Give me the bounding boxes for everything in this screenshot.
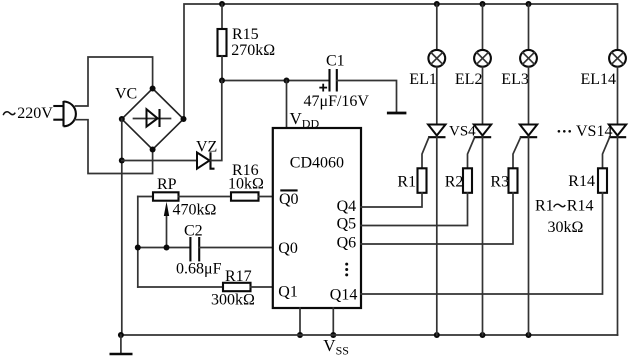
thyristor VS4 [422,125,446,169]
wire VSS pin right [332,308,334,335]
potentiometer RP [153,192,179,200]
wire C1 right lead down to terminal bar [337,81,397,113]
svg-text:C2: C2 [184,223,203,240]
resistor R15 [218,29,227,56]
node C2 row / wiper [164,245,170,251]
svg-text:Q0: Q0 [279,191,299,208]
node bridge right vertex [181,116,187,122]
svg-text:R3: R3 [490,173,509,190]
wire R17 to IC Q1 pin [251,286,273,288]
resistor R2 [463,168,472,193]
wire plug bottom prong to bridge bottom vertex [75,120,153,174]
wire EL2 to VS5 [482,67,484,125]
wire VZ cathode up to VDD node [211,81,222,161]
wire R15 top lead [221,4,223,29]
label Q0bar [279,190,299,208]
wire VSS pin left [299,308,301,335]
resistor R17 [223,283,251,291]
thyristor VS5 [468,125,492,169]
lamp EL1 [428,50,445,67]
label + polarity [319,84,327,92]
resistor R16 [231,192,259,200]
svg-text:EL2: EL2 [455,71,483,88]
node top bus / R15 [219,1,225,7]
node VZ branch [119,158,125,164]
wire EL14 to VS14 [617,67,619,125]
label ~220V [3,105,53,122]
svg-text:CD4060: CD4060 [290,155,344,172]
wire R16 to IC Q0bar pin [259,196,273,198]
wire EL3 column upper [528,4,530,50]
wire R17 row left [138,286,223,288]
svg-text:EL3: EL3 [501,71,529,88]
node ground bus left [118,332,124,338]
node bus / EL2 column [480,332,486,338]
wire EL2 column upper [482,4,484,50]
wire VDD pin into IC [286,81,288,129]
svg-text:VC: VC [115,86,137,103]
svg-text:R1: R1 [397,173,416,190]
wire EL3 column lower [528,137,530,335]
wire C2 to IC Q0 pin [199,247,273,249]
wire EL14 column lower [617,137,619,335]
wire R15 bottom lead to VDD node [221,56,223,81]
wire RP to R16 [179,196,232,198]
svg-text:EL1: EL1 [409,71,437,88]
svg-text:0.68μF: 0.68μF [176,261,222,278]
wire EL1 to VS4 [436,67,438,125]
node top bus / EL3 [526,1,532,7]
wire EL2 column lower [482,137,484,335]
resistor R3 [509,168,518,193]
node VSS pin left / bus [297,332,303,338]
node bus / EL1 column [434,332,440,338]
wire EL3 to VS6 [528,67,530,125]
svg-text:C1: C1 [326,53,345,70]
label ellipsis dots [558,130,571,133]
wire VZ anode lead [122,160,197,162]
node top bus / EL2 [480,1,486,7]
wire EL1 column upper [436,4,438,50]
svg-text:Q4: Q4 [337,198,357,215]
wire R1 to Q4 [361,193,422,207]
node bridge bottom vertex [150,147,156,153]
svg-text:R17: R17 [225,268,252,285]
svg-text:RP: RP [157,176,177,193]
ground C1 terminal bar [387,112,407,115]
svg-text:R14: R14 [567,198,594,215]
lamp EL2 [474,50,491,67]
svg-text:EL14: EL14 [581,71,617,88]
node bridge top vertex [150,86,156,92]
svg-text:Q6: Q6 [337,235,357,252]
node bridge left vertex [119,116,125,122]
node VSS pin right / bus [330,332,336,338]
diode VZ [197,152,215,169]
svg-text:270kΩ: 270kΩ [231,42,275,59]
wire EL1 column lower [436,137,438,335]
svg-text:R2: R2 [445,173,464,190]
svg-text:30kΩ: 30kΩ [548,219,584,236]
wire ground bus [121,334,618,336]
svg-text:47μF/16V: 47μF/16V [304,93,370,110]
lamp EL14 [609,50,626,67]
svg-text:VS4: VS4 [449,123,476,139]
thyristor VS14 [603,125,627,169]
wire RP left lead [138,196,153,198]
node C2 row / left rail [135,245,141,251]
svg-text:Q1: Q1 [278,283,298,300]
capacitor C1 [330,69,337,92]
wire RP wiper arrow [164,202,169,248]
svg-text:Q0: Q0 [278,240,298,257]
svg-text:R14: R14 [568,173,595,190]
svg-text:R15: R15 [232,26,259,43]
svg-text:R1: R1 [535,198,554,215]
wire R14 to Q14 [361,193,603,294]
svg-text:300kΩ: 300kΩ [211,292,255,309]
label dots vertical [345,263,348,277]
svg-text:10kΩ: 10kΩ [228,176,264,193]
thyristor VS6 [513,125,537,169]
wire C2 row left [138,247,190,249]
wire R2 to Q5 [361,193,468,226]
wire plug top prong to bridge top vertex [76,57,153,106]
capacitor C2 [190,237,199,261]
node VDD / R15 / VZ [219,78,225,84]
ground symbol [110,335,133,354]
node bus / EL3 column [526,332,532,338]
svg-text:470kΩ: 470kΩ [173,202,217,219]
plug P mains [53,101,76,127]
resistor R14 [598,168,607,193]
svg-text:Q14: Q14 [330,286,358,303]
op-amp U1 CD4060 box [273,128,361,308]
resistor R1 [418,168,427,193]
lamp EL3 [520,50,537,67]
wire VDD rail to C1 [222,80,330,82]
wire R3 to Q6 [361,193,513,244]
wire top bus with left drop to bridge right vertex and right drop to EL14 [184,4,618,117]
wire bridge left vertex down to ground bus [121,119,123,335]
bridge rectifier VC [122,89,184,150]
svg-text:220V: 220V [17,105,53,122]
svg-text:Q5: Q5 [337,216,357,233]
node VDD pin tap [284,78,290,84]
svg-text:VS14: VS14 [576,123,612,140]
label R1~R14 [535,198,593,215]
wire left rail RP/C2/R17 [137,197,139,288]
node top bus / EL1 [434,1,440,7]
